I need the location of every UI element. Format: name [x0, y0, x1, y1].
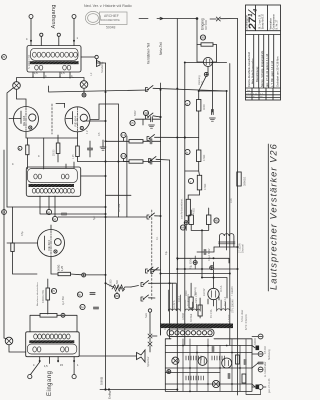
small circle taps — [40, 33, 43, 36]
comb ticks lower — [186, 376, 204, 380]
svg-text:1,5: 1,5 — [44, 364, 48, 368]
wire — [185, 62, 227, 64]
T4 secondary box — [167, 329, 214, 337]
wire — [51, 257, 106, 275]
switch X — [216, 17, 220, 21]
svg-text:4V 2,5A: 4V 2,5A — [210, 309, 213, 318]
wire to speaker — [79, 355, 136, 357]
circled 25 left edge — [2, 55, 7, 60]
driver triode V3 — [38, 230, 65, 257]
svg-text:Zeichnungs Nr.: Zeichnungs Nr. — [246, 14, 249, 30]
svg-text:87 Tr. 0,5x0,01: 87 Tr. 0,5x0,01 — [245, 314, 248, 330]
svg-text:30 Watt: 30 Watt — [190, 314, 193, 322]
wire pot to tubes — [17, 88, 85, 106]
interstage transformer T2 — [26, 167, 80, 196]
wire row — [7, 206, 106, 208]
svg-text:Name: Name — [246, 96, 253, 98]
power selector box — [165, 339, 252, 392]
switch S1 — [146, 86, 154, 92]
svg-text:2µF 582: 2µF 582 — [62, 296, 65, 305]
right column components — [258, 334, 263, 339]
svg-text:394 5000: 394 5000 — [205, 19, 208, 30]
bus wire — [126, 136, 128, 217]
wire V2 anode to bus — [90, 104, 118, 119]
T1 primary winding — [31, 48, 79, 60]
svg-text:Ned. Ver. v. Historie v/d Radi: Ned. Ver. v. Historie v/d Radio — [84, 4, 132, 8]
resistor 25000 — [56, 143, 60, 154]
svg-text:1,25: 1,25 — [73, 154, 75, 159]
svg-text:1,5: 1,5 — [61, 71, 65, 75]
svg-text:Niersp. Schaltg. Eingangstrafo: Niersp. Schaltg. Eingangstrafo — [260, 50, 264, 87]
svg-text:Netz: Netz — [145, 312, 148, 318]
capacitor 0,04 — [151, 117, 153, 122]
switch S8 — [141, 295, 149, 301]
svg-text:ARCHIEF: ARCHIEF — [104, 14, 119, 18]
wire — [106, 138, 161, 141]
selector circle low — [212, 380, 219, 387]
svg-text:DOCUMENTATIE: DOCUMENTATIE — [101, 19, 120, 22]
circled cap label — [130, 120, 135, 125]
wire — [47, 279, 49, 314]
wire left bus — [7, 88, 14, 207]
wire — [57, 135, 59, 162]
svg-text:3000: 3000 — [200, 37, 206, 40]
ww resistor — [112, 287, 125, 291]
wire below tubes — [26, 132, 78, 138]
svg-text:Lautsprecher Verstärker V26: Lautsprecher Verstärker V26 — [269, 143, 279, 290]
circled 0,5 left edge — [2, 210, 7, 215]
title underline — [267, 144, 269, 291]
svg-text:50Ω: 50Ω — [114, 294, 119, 298]
junction plus — [193, 261, 197, 265]
junction plus low — [167, 370, 171, 374]
wire grid feed — [43, 138, 45, 169]
svg-text:Sicherung: Sicherung — [268, 349, 271, 360]
svg-text:Sprecher: Sprecher — [146, 356, 150, 367]
svg-text:4 V: 4 V — [86, 130, 89, 134]
switch S6 — [146, 267, 154, 273]
resistor — [198, 305, 202, 316]
wire bottom rows — [161, 269, 238, 274]
svg-text:4 MΩ: 4 MΩ — [203, 184, 207, 190]
wire — [89, 141, 91, 157]
resistor 0,1 upper — [129, 140, 143, 143]
cap to ground right — [212, 109, 214, 114]
grid resistor — [201, 43, 213, 46]
ground — [149, 125, 155, 128]
svg-text:2x2,5V: 2x2,5V — [203, 288, 206, 296]
terminal dot — [196, 17, 199, 20]
cap 0,5uF — [204, 249, 206, 254]
terminal — [72, 15, 76, 19]
resistor 4M left — [189, 215, 193, 225]
wire into V3 — [7, 225, 51, 243]
mains transformer T4 windings — [160, 269, 233, 337]
anode wire row — [199, 90, 227, 92]
wire — [97, 59, 106, 63]
pickup horn icon — [97, 61, 101, 67]
bus wire — [237, 19, 239, 396]
switch S5 — [147, 213, 155, 219]
capacitor — [61, 213, 66, 215]
speaker horn — [137, 350, 146, 362]
T3 core — [29, 340, 74, 343]
left pot — [5, 337, 13, 345]
wire — [30, 315, 77, 332]
wire — [214, 240, 238, 247]
svg-text:gez. 27.11.33: gez. 27.11.33 — [268, 378, 271, 393]
svg-text:Drossel: Drossel — [241, 244, 245, 253]
svg-text:4V 0,2 A: 4V 0,2 A — [224, 297, 227, 306]
svg-text:40000 2,5W: 40000 2,5W — [42, 289, 45, 303]
svg-text:1250Ω: 1250Ω — [182, 313, 185, 320]
svg-text:4MΩ: 4MΩ — [214, 219, 220, 223]
svg-text:m. Umschalter: m. Umschalter — [264, 361, 267, 377]
switch wires — [131, 88, 227, 298]
wire taps below T1 — [33, 72, 70, 78]
svg-text:Ausgang: Ausgang — [51, 4, 57, 28]
T2 upper inner box — [28, 169, 78, 183]
T4 winding group 1 — [168, 309, 180, 311]
svg-text:60 Watt: 60 Watt — [118, 204, 121, 212]
circled plus — [210, 266, 214, 270]
selector circle — [172, 357, 179, 364]
bus wire — [169, 160, 171, 339]
grid resistor left — [26, 145, 29, 155]
svg-text:Kr: Kr — [253, 95, 255, 98]
svg-text:110V A: 110V A — [173, 300, 176, 308]
resistor small left — [11, 243, 14, 252]
svg-text:30000: 30000 — [254, 338, 257, 345]
choke Drossel — [219, 234, 236, 244]
wire — [191, 283, 200, 318]
svg-text:RE 604: RE 604 — [22, 115, 26, 126]
svg-text:6µ: 6µ — [78, 293, 81, 297]
svg-text:Verstärker-Teil: Verstärker-Teil — [147, 43, 151, 64]
wire — [186, 216, 188, 231]
junction dots — [30, 40, 32, 42]
svg-text:Bezeichnung:: Bezeichnung: — [255, 66, 259, 82]
wire — [78, 138, 130, 162]
svg-text:1,5: 1,5 — [34, 71, 38, 75]
resistor chain a — [197, 100, 201, 112]
circled 3000 — [200, 35, 206, 40]
svg-text:4.11.: 4.11. — [253, 93, 258, 95]
svg-text:5µF: 5µF — [93, 215, 96, 220]
resistor 0,1 lower — [129, 160, 143, 163]
input transformer T3 — [26, 332, 79, 357]
svg-text:M.P.A.: M.P.A. — [220, 285, 223, 292]
resistor chain c — [197, 175, 201, 190]
svg-text:1,25: 1,25 — [60, 265, 64, 271]
svg-text:Bl. 1 von 1 Bl.: Bl. 1 von 1 Bl. — [259, 14, 262, 29]
T2 secondary winding — [32, 189, 36, 194]
wire — [4, 338, 26, 352]
resistor 38965 — [237, 172, 241, 186]
svg-text:gez. 27.11.33 geänd. 4.1.34: gez. 27.11.33 geänd. 4.1.34 — [265, 53, 269, 87]
svg-text:27¼: 27¼ — [247, 8, 259, 30]
circled 6u — [77, 292, 82, 297]
svg-text:50: 50 — [53, 217, 57, 221]
svg-text:L.T. Bln. gepr. 14.2.34: L.T. Bln. gepr. 14.2.34 — [270, 60, 274, 87]
wire to side terminal — [81, 56, 95, 58]
caps in grid — [212, 346, 214, 351]
switch brackets power — [151, 268, 159, 274]
wire — [185, 162, 200, 199]
socket circle — [198, 357, 207, 366]
wire — [135, 119, 161, 125]
svg-text:40µ 500V: 40µ 500V — [190, 258, 193, 269]
T4 winding group 3 — [217, 309, 230, 311]
wire — [198, 91, 200, 150]
svg-text:0,5 MΩ: 0,5 MΩ — [264, 346, 267, 354]
circled junction — [204, 72, 208, 76]
svg-text:2.7.: 2.7. — [260, 93, 264, 95]
wire — [31, 19, 74, 46]
wire — [213, 262, 215, 306]
svg-text:f. Gleichr.: f. Gleichr. — [231, 286, 234, 296]
switch S2 — [146, 113, 154, 119]
svg-text:2µ: 2µ — [81, 305, 84, 309]
socket circle — [222, 358, 232, 368]
svg-text:Abnehmer überbrückbar: Abnehmer überbrückbar — [36, 282, 39, 306]
svg-text:Abtlg. Berlin Masurenallee: Abtlg. Berlin Masurenallee — [251, 58, 254, 84]
circled 0,04 label — [143, 110, 149, 115]
terminals mid left — [148, 309, 151, 312]
capacitor 6u — [90, 293, 95, 295]
svg-text:0,04: 0,04 — [143, 111, 149, 115]
bus wire — [117, 104, 119, 217]
bus wire — [184, 63, 186, 346]
wire tube to divider — [199, 76, 206, 91]
input tube V4 — [203, 57, 212, 66]
T1 core — [30, 61, 79, 64]
junction plus — [82, 93, 86, 97]
svg-text:0,04: 0,04 — [230, 198, 233, 203]
svg-text:Eingang: Eingang — [201, 18, 205, 30]
svg-text:Netz-Teil: Netz-Teil — [159, 42, 163, 55]
svg-text:40µ: 40µ — [165, 250, 168, 255]
circled label — [18, 146, 22, 150]
wire — [26, 138, 28, 169]
svg-text:Verstärker: Verstärker — [270, 18, 273, 30]
svg-text:Heizung: Heizung — [194, 287, 197, 296]
svg-text:38965Ω: 38965Ω — [243, 177, 247, 186]
mechanical link dashed — [151, 210, 153, 300]
resistor 40000 — [46, 288, 50, 300]
svg-text:Geändert am 30.4.36 Nm: Geändert am 30.4.36 Nm — [275, 56, 279, 87]
wire right column — [252, 346, 258, 387]
svg-text:1913: 1913 — [246, 93, 252, 95]
svg-text:4000: 4000 — [202, 104, 206, 110]
bus wire — [176, 19, 178, 391]
svg-text:2x140 V/2x: 2x140 V/2x — [187, 293, 190, 306]
junction plus — [61, 313, 65, 317]
bus wire — [226, 91, 228, 250]
svg-text:500V: 500V — [134, 110, 137, 116]
T4 core — [160, 324, 233, 329]
svg-text:50048: 50048 — [106, 26, 116, 30]
grid horizontals — [165, 346, 252, 385]
grid pot P2 — [80, 81, 88, 89]
wire — [17, 78, 85, 82]
power box junction dots — [182, 345, 241, 393]
circled 50 — [52, 216, 57, 221]
wire — [191, 208, 209, 269]
svg-text:4MΩ: 4MΩ — [180, 226, 186, 230]
terminal — [72, 375, 76, 379]
wire anode row — [49, 86, 148, 108]
resistor horizontal — [40, 314, 57, 318]
svg-text:2x0,3: 2x0,3 — [178, 295, 181, 302]
triode V1 RE604 — [9, 107, 39, 132]
comb ticks upper — [186, 356, 225, 360]
wire — [106, 283, 132, 293]
T4 winding group 2 — [185, 309, 200, 311]
main bus — [105, 63, 107, 390]
svg-text:Ersatz für B 27: Ersatz für B 27 — [262, 13, 265, 29]
T2 upper windings — [34, 174, 37, 179]
rectifier tube V5 — [208, 288, 219, 299]
switch S4 — [149, 157, 157, 163]
wire — [150, 312, 161, 352]
switch S7 — [141, 281, 149, 287]
grid pot P1 — [13, 82, 21, 90]
wire above T2 — [66, 162, 74, 168]
svg-text:zum Anlasswiderst.: zum Anlasswiderst. — [181, 198, 184, 219]
grid verticals — [183, 339, 246, 392]
capacitor — [150, 159, 152, 164]
svg-text:0,5µF 500V: 0,5µF 500V — [208, 248, 211, 261]
svg-text:25000: 25000 — [54, 149, 56, 156]
circled b2 — [80, 304, 85, 309]
bus wire — [160, 83, 162, 335]
svg-text:0,86Ω: 0,86Ω — [100, 376, 104, 385]
circled 0,1 — [121, 153, 126, 158]
resistors in grid — [236, 355, 240, 364]
T1 secondary winding — [35, 65, 39, 70]
svg-text:400Ω: 400Ω — [193, 208, 196, 214]
capacitor 2uF — [93, 307, 98, 309]
resistor — [189, 297, 193, 308]
T3 secondary winding — [34, 334, 38, 339]
wire earth — [100, 389, 177, 391]
svg-text:Eingang: Eingang — [47, 370, 53, 396]
T3 primary inner box — [27, 344, 77, 354]
wire — [207, 67, 209, 75]
wire y258 — [177, 258, 229, 263]
svg-text:0,5µ: 0,5µ — [21, 231, 24, 236]
continuation arrows — [139, 17, 196, 19]
resistor 4M right — [207, 215, 211, 225]
circled 50 — [46, 209, 51, 214]
svg-text:0,1: 0,1 — [121, 154, 125, 158]
terminal — [29, 15, 33, 19]
ground — [100, 147, 106, 150]
svg-text:RE 604: RE 604 — [47, 240, 51, 251]
triode V2 RE604 — [65, 107, 90, 132]
output transformer T1 — [27, 46, 81, 73]
resistor — [76, 146, 80, 157]
T2 core — [29, 184, 75, 187]
wire bus around tubes — [17, 76, 73, 78]
wire — [197, 19, 238, 45]
wire rectifier loop — [202, 269, 227, 298]
svg-text:STV 280/40: STV 280/40 — [231, 299, 235, 313]
svg-text:Reichs-Rundfunk-Gesellschaft: Reichs-Rundfunk-Gesellschaft — [247, 52, 251, 87]
switch S3 — [147, 135, 155, 141]
cathode resistor 500 ohm — [58, 272, 71, 275]
svg-text:RE 604: RE 604 — [74, 116, 78, 127]
wire — [124, 159, 161, 162]
heater resistor — [186, 199, 190, 216]
terminal — [95, 55, 98, 58]
wire T2 to bus — [81, 175, 106, 177]
wire to terminals — [31, 362, 75, 375]
capacitor — [87, 148, 92, 150]
svg-text:f. 87 Tr.: f. 87 Tr. — [228, 314, 231, 322]
junction plus — [82, 273, 86, 277]
circled 0,1 — [121, 132, 126, 137]
circled plus — [184, 221, 188, 225]
dashed link between tubes — [51, 104, 53, 134]
svg-text:4 MΩ: 4 MΩ — [202, 155, 206, 161]
svg-text:Erdltg.: Erdltg. — [108, 390, 112, 399]
svg-text:582: 582 — [116, 279, 119, 284]
bus wire — [229, 64, 231, 346]
ww resistor 50 ohm — [113, 285, 125, 289]
capacitor — [150, 139, 152, 144]
wire far-left bus — [3, 150, 5, 338]
svg-text:N.V.A. über: N.V.A. über — [241, 310, 244, 322]
circled 50 — [114, 293, 120, 298]
wire — [197, 45, 217, 63]
wire stubs under T3 — [40, 357, 74, 364]
wire rectifier to winding — [208, 297, 219, 304]
terminal — [28, 375, 32, 379]
wire power box to right column — [246, 337, 261, 395]
wire under T2 — [40, 196, 106, 216]
resistor chain b — [197, 150, 201, 162]
wire anode feed — [84, 120, 106, 122]
svg-text:0,1: 0,1 — [121, 133, 125, 137]
wire y195 — [58, 195, 146, 217]
svg-text:B. Nr. 27: B. Nr. 27 — [276, 19, 279, 29]
wire — [13, 207, 38, 274]
svg-text:0,5: 0,5 — [130, 121, 134, 125]
archive stamp oval ARCHIEF — [85, 11, 127, 24]
wire — [41, 37, 59, 46]
wire — [102, 140, 104, 147]
